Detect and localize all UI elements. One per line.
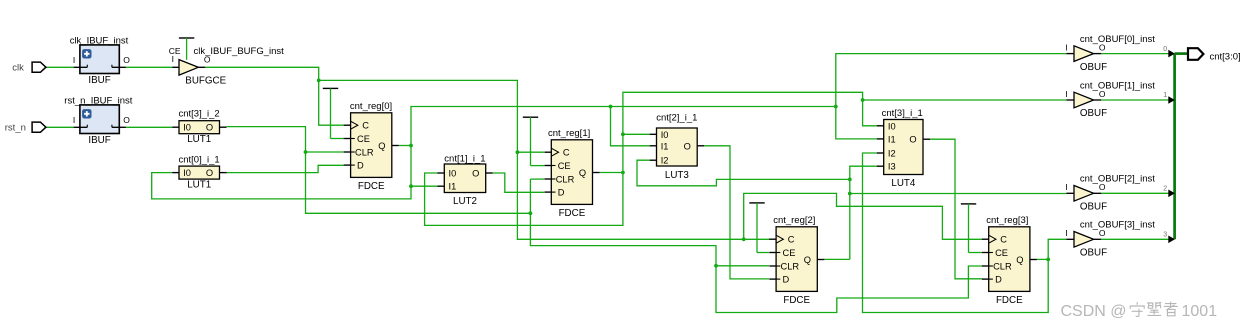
svg-text:D: D: [783, 275, 790, 285]
svg-text:clk: clk: [12, 62, 24, 73]
svg-text:1: 1: [1163, 92, 1167, 99]
svg-text:I0: I0: [661, 130, 669, 140]
svg-text:clk_IBUF_BUFG_inst: clk_IBUF_BUFG_inst: [194, 46, 285, 57]
svg-text:cnt_reg[1]: cnt_reg[1]: [548, 128, 590, 139]
svg-text:cnt_reg[2]: cnt_reg[2]: [773, 215, 815, 226]
svg-text:OBUF: OBUF: [1080, 202, 1107, 213]
svg-text:D: D: [357, 161, 364, 171]
svg-text:CE: CE: [995, 248, 1008, 258]
svg-text:FDCE: FDCE: [559, 208, 586, 219]
svg-text:I1: I1: [449, 182, 457, 192]
svg-text:C: C: [788, 235, 795, 245]
svg-text:3: 3: [1163, 232, 1167, 239]
svg-text:cnt[3]_i_2: cnt[3]_i_2: [179, 108, 220, 119]
svg-text:LUT1: LUT1: [187, 134, 211, 145]
svg-text:I1: I1: [888, 134, 896, 144]
svg-text:OBUF: OBUF: [1080, 108, 1107, 119]
svg-text:CE: CE: [169, 46, 181, 56]
svg-text:cnt_OBUF[2]_inst: cnt_OBUF[2]_inst: [1080, 174, 1155, 185]
svg-text:FDCE: FDCE: [783, 295, 810, 306]
svg-text:IBUF: IBUF: [88, 75, 110, 86]
svg-text:CLR: CLR: [355, 148, 374, 158]
svg-text:rst_n_IBUF_inst: rst_n_IBUF_inst: [64, 95, 132, 106]
svg-text:I: I: [1065, 42, 1067, 52]
svg-text:cnt_OBUF[1]_inst: cnt_OBUF[1]_inst: [1080, 80, 1155, 91]
svg-text:LUT4: LUT4: [891, 178, 916, 189]
svg-text:I2: I2: [661, 156, 669, 166]
svg-text:D: D: [995, 275, 1002, 285]
svg-text:Q: Q: [1016, 255, 1023, 265]
svg-text:CE: CE: [357, 134, 370, 144]
svg-text:CE: CE: [558, 161, 571, 171]
svg-text:O: O: [206, 168, 213, 178]
svg-text:I0: I0: [183, 168, 191, 178]
svg-text:cnt[0]_i_1: cnt[0]_i_1: [179, 155, 220, 166]
svg-text:IBUF: IBUF: [88, 135, 110, 146]
svg-text:O: O: [123, 55, 130, 65]
svg-text:1001: 1001: [1182, 303, 1218, 320]
svg-text:I0: I0: [183, 123, 191, 133]
svg-text:CSDN @: CSDN @: [1061, 303, 1127, 320]
svg-text:0: 0: [1163, 46, 1167, 53]
svg-text:I: I: [1065, 228, 1067, 238]
svg-text:D: D: [558, 188, 565, 198]
svg-text:C: C: [563, 148, 570, 158]
svg-text:cnt[3]_i_1: cnt[3]_i_1: [882, 108, 923, 119]
svg-text:C: C: [362, 121, 369, 131]
svg-text:O: O: [909, 135, 916, 145]
svg-text:O: O: [472, 169, 479, 179]
svg-text:cnt_OBUF[0]_inst: cnt_OBUF[0]_inst: [1080, 34, 1155, 45]
svg-text:O: O: [684, 141, 691, 151]
svg-text:cnt_reg[3]: cnt_reg[3]: [986, 215, 1028, 226]
svg-text:I0: I0: [888, 121, 896, 131]
svg-text:FDCE: FDCE: [996, 295, 1023, 306]
svg-text:rst_n: rst_n: [5, 122, 26, 133]
svg-text:I3: I3: [888, 162, 896, 172]
svg-text:FDCE: FDCE: [358, 181, 385, 192]
svg-text:I: I: [1065, 182, 1067, 192]
svg-text:I: I: [73, 115, 75, 125]
svg-text:clk_IBUF_inst: clk_IBUF_inst: [70, 35, 129, 46]
svg-text:LUT1: LUT1: [187, 180, 211, 191]
svg-text:CE: CE: [783, 248, 796, 258]
svg-text:I1: I1: [661, 141, 669, 151]
svg-text:I: I: [73, 55, 75, 65]
svg-text:C: C: [1000, 235, 1007, 245]
svg-text:OBUF: OBUF: [1080, 248, 1107, 259]
svg-text:cnt[1]_i_1: cnt[1]_i_1: [444, 153, 485, 164]
svg-text:cnt_reg[0]: cnt_reg[0]: [350, 101, 392, 112]
svg-text:LUT2: LUT2: [453, 196, 477, 207]
svg-text:cnt[2]_i_1: cnt[2]_i_1: [656, 112, 697, 123]
svg-text:Q: Q: [579, 168, 586, 178]
svg-text:OBUF: OBUF: [1080, 62, 1107, 73]
svg-text:LUT3: LUT3: [665, 170, 690, 181]
svg-text:CLR: CLR: [781, 262, 800, 272]
svg-text:CLR: CLR: [993, 262, 1012, 272]
svg-text:O: O: [206, 123, 213, 133]
svg-text:Q: Q: [804, 255, 811, 265]
svg-text:BUFGCE: BUFGCE: [185, 76, 226, 87]
svg-text:I: I: [1065, 89, 1067, 99]
svg-text:Q: Q: [378, 141, 385, 151]
svg-text:cnt_OBUF[3]_inst: cnt_OBUF[3]_inst: [1080, 220, 1155, 231]
svg-text:CLR: CLR: [556, 175, 575, 185]
svg-text:I: I: [172, 54, 174, 64]
svg-text:I2: I2: [888, 149, 896, 159]
svg-text:O: O: [123, 115, 130, 125]
svg-text:cnt[3:0]: cnt[3:0]: [1210, 51, 1241, 62]
svg-text:2: 2: [1163, 186, 1167, 193]
svg-text:I0: I0: [449, 169, 457, 179]
